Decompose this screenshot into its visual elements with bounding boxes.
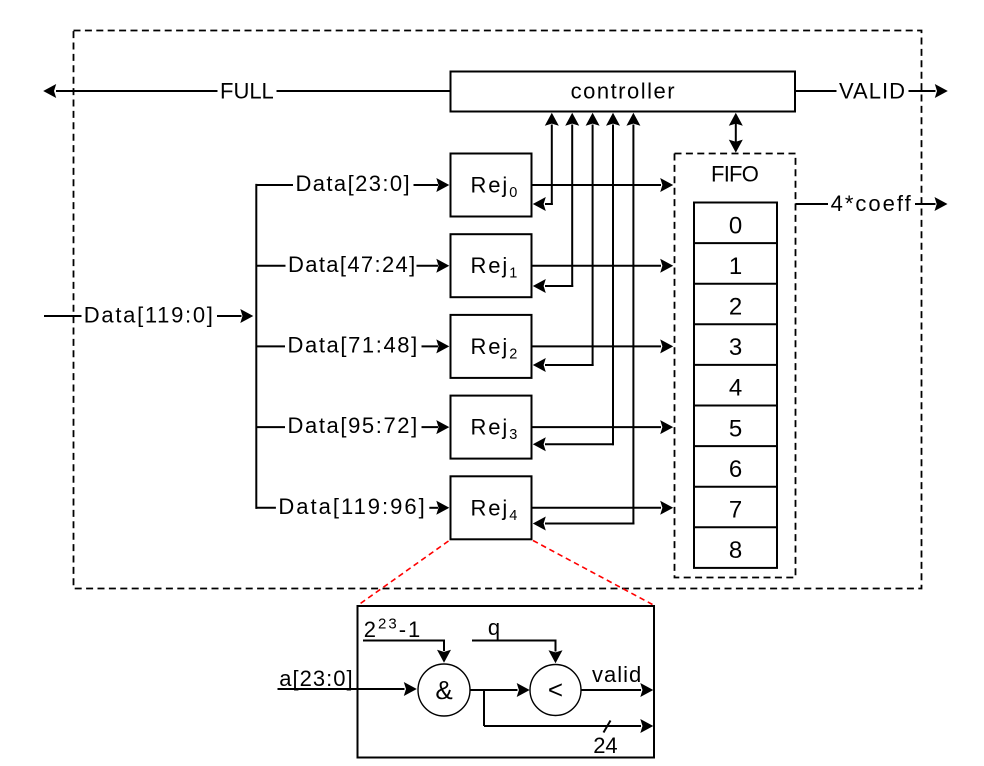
svg-text:1: 1: [729, 253, 742, 280]
svg-text:valid: valid: [592, 662, 642, 687]
wire Rej4 to FIFO: [532, 507, 662, 509]
wire controller-Rej4 vertical: [632, 125, 634, 525]
red dashed zoom line left: [359, 541, 449, 605]
wire Rej3 to FIFO: [532, 426, 662, 428]
wire controller-FIFO double arrow: [735, 123, 737, 142]
block Rej4: [451, 476, 532, 539]
FIFO dashed box: [675, 154, 796, 578]
detail box: [358, 606, 655, 758]
wire return into Rej1: [545, 285, 573, 287]
svg-text:q: q: [488, 615, 500, 640]
wire controller-Rej2 vertical: [592, 125, 594, 367]
svg-text:4*coeff: 4*coeff: [831, 191, 913, 216]
svg-text:FIFO: FIFO: [711, 162, 759, 187]
svg-text:<: <: [548, 675, 563, 705]
data fanout bus vertical: [255, 184, 257, 509]
wire 24-bit branch: [483, 690, 485, 726]
wire Rej1 to FIFO: [532, 265, 662, 267]
wire return into Rej3: [545, 443, 614, 445]
svg-text:controller: controller: [571, 79, 676, 104]
red dashed zoom line right: [533, 541, 653, 605]
wire Data[119:0] input: [44, 315, 82, 317]
svg-text:6: 6: [729, 456, 742, 483]
svg-text:4: 4: [729, 375, 742, 402]
wire valid output: [581, 689, 641, 691]
svg-text:24: 24: [593, 733, 617, 758]
FIFO cells outline: [694, 203, 777, 568]
bus width slash: [604, 721, 611, 733]
svg-text:a[23:0]: a[23:0]: [279, 666, 353, 691]
svg-text:VALID: VALID: [839, 79, 906, 104]
wire return into Rej4: [545, 523, 634, 525]
wire VALID: [795, 90, 837, 92]
wire return into Rej0: [545, 203, 553, 205]
wire Data[71:48] to Rej2: [256, 345, 285, 347]
svg-text:FULL: FULL: [220, 79, 274, 104]
FIFO cell divider 4: [694, 364, 777, 366]
svg-text:Data[119:96]: Data[119:96]: [278, 494, 426, 519]
wire 2^23-1 into AND: [363, 640, 444, 642]
FIFO cell divider 1: [694, 242, 777, 244]
FIFO cell divider 8: [694, 526, 777, 528]
wire FULL: [277, 90, 451, 92]
block Rej1: [451, 234, 532, 297]
FIFO cell divider 3: [694, 323, 777, 325]
svg-text:Data[71:48]: Data[71:48]: [288, 333, 419, 358]
svg-text:Data[119:0]: Data[119:0]: [84, 303, 215, 328]
block Rej3: [451, 396, 532, 459]
svg-text:3: 3: [729, 334, 742, 361]
svg-text:7: 7: [729, 497, 742, 524]
FIFO cell divider 5: [694, 405, 777, 407]
svg-text:Data[47:24]: Data[47:24]: [288, 252, 417, 277]
wire 4*coeff: [796, 203, 829, 205]
comparator circle: [530, 665, 581, 716]
FIFO cell divider 6: [694, 445, 777, 447]
AND gate circle: [418, 664, 470, 716]
block Rej0: [451, 154, 532, 217]
wire Data[119:96] to Rej4: [256, 507, 276, 509]
block Rej2: [451, 315, 532, 378]
wire Data[47:24] to Rej1: [256, 265, 285, 267]
wire controller-Rej0 vertical: [551, 125, 553, 206]
wire controller-Rej3 vertical: [612, 125, 614, 446]
FIFO cell divider 2: [694, 283, 777, 285]
wire return into Rej2: [545, 364, 594, 366]
svg-text:2: 2: [729, 294, 742, 321]
wire Rej2 to FIFO: [532, 345, 662, 347]
svg-text:&: &: [435, 675, 452, 705]
outer dashed boundary box: [74, 31, 922, 589]
svg-text:5: 5: [729, 415, 742, 442]
wire Data[23:0] to Rej0: [256, 184, 293, 186]
svg-text:Data[23:0]: Data[23:0]: [296, 171, 412, 196]
wire controller-Rej1 vertical: [571, 125, 573, 288]
svg-text:0: 0: [729, 212, 742, 239]
FIFO cell divider 7: [694, 486, 777, 488]
wire Data[95:72] to Rej3: [256, 426, 285, 428]
wire a[23:0] input: [278, 688, 405, 690]
svg-text:Data[95:72]: Data[95:72]: [288, 413, 419, 438]
svg-text:8: 8: [729, 537, 742, 564]
controller block: [451, 72, 796, 112]
wire AND to comparator: [470, 689, 518, 691]
wire Rej0 to FIFO: [532, 184, 662, 186]
wire q into comparator: [472, 640, 556, 642]
